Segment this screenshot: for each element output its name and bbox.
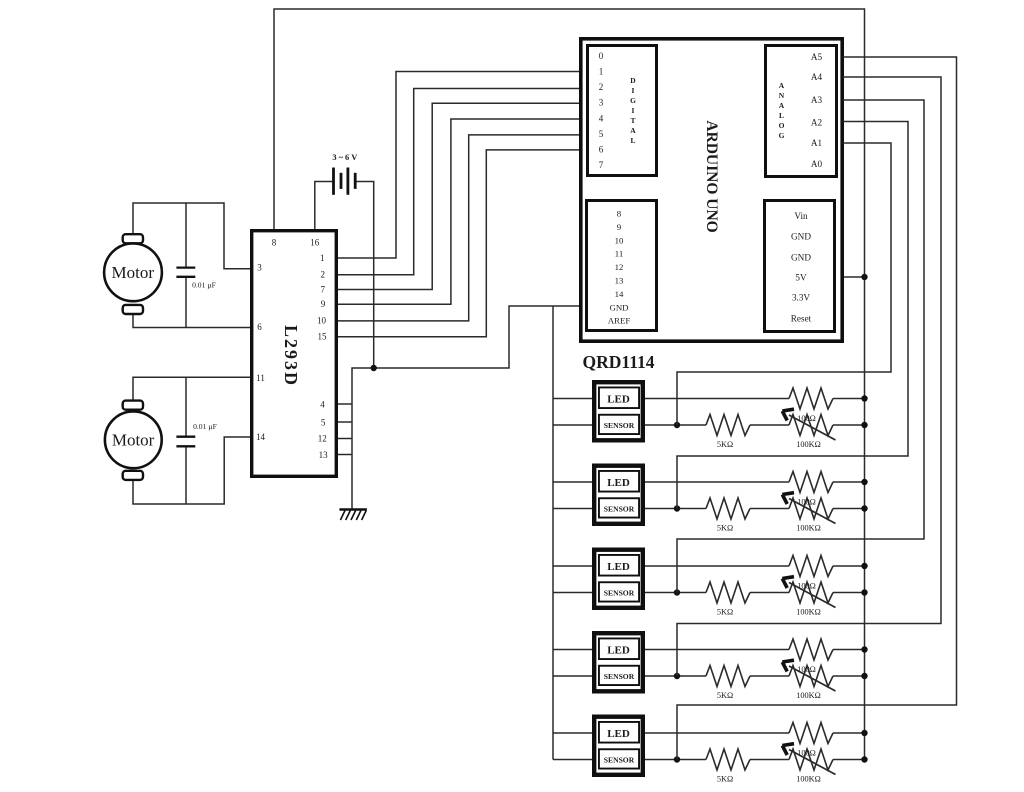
- potentiometer 100K sensor 5: [789, 749, 833, 770]
- junction sensor 1 potentiometer at 5V rail: [861, 422, 867, 428]
- wire sensor 5 phototransistor emitter to ground rail: [553, 759, 594, 761]
- wire L293D pin 4 to ground: [338, 403, 352, 405]
- svg-text:A1: A1: [811, 138, 823, 148]
- svg-text:10: 10: [615, 235, 624, 245]
- svg-text:L293D: L293D: [281, 325, 301, 387]
- svg-text:A: A: [779, 101, 785, 110]
- wire battery right terminal down to ground node: [356, 182, 374, 369]
- junction battery negative at ground bus: [371, 365, 377, 371]
- wire sensor 5 collector to node: [643, 759, 706, 761]
- motor M1: [104, 234, 162, 314]
- svg-text:Reset: Reset: [791, 314, 812, 324]
- wire motor M1 + to L293D pin 3: [133, 203, 250, 269]
- potentiometer wiper arrow sensor 1: [782, 409, 835, 440]
- Arduino analog pins box: [766, 46, 837, 177]
- wire L293D pin 12 to ground: [338, 438, 352, 440]
- svg-text:2: 2: [599, 82, 604, 92]
- junction sensor 1 LED resistor at 5V rail: [861, 395, 867, 401]
- wire capacitor C1 top lead: [185, 203, 187, 267]
- potentiometer wiper arrow sensor 3: [782, 577, 835, 608]
- svg-text:Motor: Motor: [112, 263, 155, 282]
- ground: [339, 510, 367, 521]
- svg-text:SENSOR: SENSOR: [604, 504, 635, 513]
- svg-text:LED: LED: [607, 477, 630, 489]
- wire 5V rail from L293D pin 8 across top and down right side: [274, 9, 865, 760]
- potentiometer 100K sensor 1: [789, 415, 833, 436]
- resistor 5K-ohm sensor 5: [706, 749, 750, 770]
- svg-text:14: 14: [615, 289, 624, 299]
- svg-text:8: 8: [617, 209, 622, 219]
- wire 5K to potentiometer sensor 2: [750, 508, 789, 510]
- node sensor 1 output: [674, 422, 680, 428]
- junction sensor 2 potentiometer at 5V rail: [861, 505, 867, 511]
- svg-text:LED: LED: [607, 645, 630, 657]
- potentiometer 100K sensor 2: [789, 498, 833, 519]
- Arduino power pins box: [765, 201, 835, 332]
- potentiometer wiper arrow sensor 5: [782, 744, 835, 775]
- svg-text:A5: A5: [811, 52, 823, 62]
- junction sensor 5 potentiometer at 5V rail: [861, 756, 867, 762]
- IC U1 L293D: [252, 231, 337, 477]
- svg-text:SENSOR: SENSOR: [604, 755, 635, 764]
- svg-text:I: I: [632, 86, 635, 95]
- svg-text:A: A: [779, 81, 785, 90]
- wire sensor 2 LED anode to resistor: [643, 481, 789, 483]
- svg-text:I: I: [632, 106, 635, 115]
- wire sensor 2 output to Arduino A2: [677, 122, 908, 509]
- wire L293D pin 9 to Arduino digital 4: [338, 119, 581, 304]
- svg-text:G: G: [779, 131, 785, 140]
- svg-text:A2: A2: [811, 118, 823, 128]
- svg-text:5KΩ: 5KΩ: [717, 775, 733, 784]
- potentiometer wiper arrow sensor 2: [782, 493, 835, 524]
- wire sensor 4 LED anode to resistor: [643, 649, 789, 651]
- svg-text:11: 11: [615, 249, 623, 259]
- svg-text:100KΩ: 100KΩ: [796, 691, 821, 700]
- wire potentiometer to 5V rail sensor 3: [833, 592, 865, 594]
- svg-text:ARDUINO UNO: ARDUINO UNO: [703, 120, 720, 232]
- wire sensor 5 LED cathode to ground rail: [553, 732, 594, 734]
- wire motor M1 - to L293D pin 6: [133, 314, 250, 328]
- svg-text:100KΩ: 100KΩ: [796, 608, 821, 617]
- wire 5K to potentiometer sensor 3: [750, 592, 789, 594]
- svg-text:12: 12: [615, 262, 624, 272]
- svg-text:1: 1: [599, 67, 604, 77]
- svg-text:GND: GND: [791, 231, 811, 241]
- svg-text:16: 16: [310, 238, 320, 248]
- svg-text:3: 3: [257, 263, 262, 273]
- wire ground symbol to Arduino GND pin: [352, 306, 581, 510]
- svg-text:5KΩ: 5KΩ: [717, 608, 733, 617]
- junction sensor 3 potentiometer at 5V rail: [861, 589, 867, 595]
- wire sensor 3 LED anode to resistor: [643, 565, 789, 567]
- QRD1114 sensor module 4: [594, 633, 643, 691]
- battery B1 plate short right: [354, 173, 357, 189]
- svg-text:5KΩ: 5KΩ: [717, 524, 733, 533]
- svg-text:N: N: [779, 91, 785, 100]
- wire 5K to potentiometer sensor 1: [750, 424, 789, 426]
- wire sensor 5 LED anode to resistor: [643, 732, 789, 734]
- wire 5K to potentiometer sensor 5: [750, 759, 789, 761]
- svg-text:SENSOR: SENSOR: [604, 421, 635, 430]
- svg-text:SENSOR: SENSOR: [604, 672, 635, 681]
- svg-text:12: 12: [318, 434, 327, 444]
- wire capacitor C2 bottom lead: [185, 447, 187, 504]
- node sensor 4 output: [674, 673, 680, 679]
- svg-text:100Ω: 100Ω: [797, 498, 816, 507]
- IC U2 Arduino UNO outer box: [581, 39, 842, 341]
- QRD1114 sensor module 3: [594, 550, 643, 608]
- wire motor M2 + to L293D pin 11: [133, 377, 250, 400]
- Arduino digital pins 8-14 GND AREF box: [587, 201, 657, 331]
- junction sensor 4 LED resistor at 5V rail: [861, 646, 867, 652]
- wire ground rail to sensor array: [552, 306, 554, 760]
- svg-text:A3: A3: [811, 95, 823, 105]
- svg-text:LED: LED: [607, 561, 630, 573]
- svg-text:100Ω: 100Ω: [797, 582, 816, 591]
- svg-text:L: L: [779, 111, 784, 120]
- wire sensor 1 LED cathode to ground rail: [553, 398, 594, 400]
- wire sensor 4 collector to node: [643, 675, 706, 677]
- wire potentiometer to 5V rail sensor 5: [833, 759, 865, 761]
- motor M2: [105, 401, 162, 480]
- wire sensor 3 phototransistor emitter to ground rail: [553, 592, 594, 594]
- svg-text:A4: A4: [811, 72, 823, 82]
- resistor 100-ohm sensor 3 LED: [789, 556, 833, 577]
- wire motor M2 - to L293D pin 14: [133, 437, 250, 504]
- wire sensor 1 phototransistor emitter to ground rail: [553, 424, 594, 426]
- svg-text:L: L: [630, 136, 635, 145]
- battery B1 plate long left: [332, 168, 335, 195]
- capacitor C1 0.01uF: [176, 268, 215, 290]
- junction sensor 5 LED resistor at 5V rail: [861, 730, 867, 736]
- wire sensor 5 output to Arduino A5: [677, 57, 957, 760]
- svg-text:D: D: [630, 76, 636, 85]
- wire sensor 3 LED cathode to ground rail: [553, 565, 594, 567]
- battery B1 plate long right: [346, 168, 349, 195]
- wire resistor to 5V rail sensor 4: [833, 649, 865, 651]
- wire sensor 2 collector to node: [643, 508, 706, 510]
- potentiometer 100K sensor 4: [789, 666, 833, 687]
- resistor 100-ohm sensor 1 LED: [789, 388, 833, 409]
- svg-text:100Ω: 100Ω: [797, 749, 816, 758]
- svg-text:100Ω: 100Ω: [797, 665, 816, 674]
- wire Arduino 5V pin to supply rail: [843, 276, 865, 278]
- svg-text:Vin: Vin: [794, 211, 808, 221]
- svg-text:10: 10: [317, 316, 327, 326]
- svg-text:100KΩ: 100KΩ: [796, 775, 821, 784]
- battery B1 plate short: [340, 173, 343, 189]
- QRD1114 sensor module 2: [594, 466, 643, 524]
- svg-text:13: 13: [319, 450, 329, 460]
- svg-text:6: 6: [599, 145, 604, 155]
- resistor 5K-ohm sensor 2: [706, 498, 750, 519]
- wire sensor 4 LED cathode to ground rail: [553, 649, 594, 651]
- svg-text:3 ~ 6 V: 3 ~ 6 V: [332, 153, 357, 162]
- svg-text:14: 14: [256, 432, 266, 442]
- wire L293D pin 15 to Arduino digital 6: [338, 150, 581, 337]
- svg-text:Motor: Motor: [112, 431, 155, 450]
- svg-text:9: 9: [321, 299, 326, 309]
- svg-text:GND: GND: [609, 302, 628, 312]
- svg-text:100KΩ: 100KΩ: [796, 524, 821, 533]
- svg-text:5KΩ: 5KΩ: [717, 440, 733, 449]
- wire potentiometer to 5V rail sensor 4: [833, 675, 865, 677]
- svg-text:5: 5: [599, 129, 604, 139]
- wire sensor 1 output to Arduino A1: [677, 143, 891, 425]
- svg-text:LED: LED: [607, 728, 630, 740]
- svg-text:G: G: [630, 96, 636, 105]
- wire sensor 1 LED anode to resistor: [643, 398, 789, 400]
- resistor 100-ohm sensor 5 LED: [789, 723, 833, 744]
- svg-text:4: 4: [320, 400, 325, 410]
- svg-text:SENSOR: SENSOR: [604, 588, 635, 597]
- resistor 5K-ohm sensor 3: [706, 582, 750, 603]
- svg-text:15: 15: [318, 332, 328, 342]
- node sensor 2 output: [674, 505, 680, 511]
- wire sensor 3 collector to node: [643, 592, 706, 594]
- wire L293D pin 5 to ground: [338, 421, 352, 423]
- resistor 5K-ohm sensor 4: [706, 666, 750, 687]
- potentiometer 100K sensor 3: [789, 582, 833, 603]
- svg-text:5KΩ: 5KΩ: [717, 691, 733, 700]
- wire sensor 1 collector to node: [643, 424, 706, 426]
- wire capacitor C1 bottom lead: [185, 278, 187, 328]
- svg-text:3: 3: [599, 98, 604, 108]
- capacitor C2 0.01uF: [176, 422, 216, 446]
- svg-text:9: 9: [617, 222, 622, 232]
- svg-text:13: 13: [615, 276, 624, 286]
- svg-text:1: 1: [320, 253, 325, 263]
- QRD1114 sensor module 5: [594, 717, 643, 775]
- wire L293D pin 16 to battery left terminal: [315, 182, 333, 230]
- wire 5K to potentiometer sensor 4: [750, 675, 789, 677]
- wire sensor 2 phototransistor emitter to ground rail: [553, 508, 594, 510]
- wire capacitor C2 top lead: [185, 377, 187, 436]
- potentiometer wiper arrow sensor 4: [782, 660, 835, 691]
- junction sensor 2 LED resistor at 5V rail: [861, 479, 867, 485]
- L293D pin labels: [256, 238, 328, 461]
- wire L293D pin 7 to Arduino digital 3: [338, 103, 581, 289]
- wire sensor 4 output to Arduino A4: [677, 77, 941, 676]
- node sensor 5 output: [674, 756, 680, 762]
- svg-text:7: 7: [320, 285, 325, 295]
- junction sensor 3 LED resistor at 5V rail: [861, 563, 867, 569]
- svg-text:5: 5: [321, 418, 326, 428]
- svg-text:7: 7: [599, 160, 604, 170]
- svg-text:0.01 µF: 0.01 µF: [192, 281, 216, 290]
- wire resistor to 5V rail sensor 2: [833, 481, 865, 483]
- wire potentiometer to 5V rail sensor 1: [833, 424, 865, 426]
- svg-text:A0: A0: [811, 159, 823, 169]
- wire L293D pin 13 to ground: [338, 454, 352, 456]
- wire resistor to 5V rail sensor 5: [833, 732, 865, 734]
- junction sensor 4 potentiometer at 5V rail: [861, 673, 867, 679]
- svg-text:GND: GND: [791, 252, 811, 262]
- svg-text:11: 11: [256, 373, 265, 383]
- svg-text:0: 0: [599, 51, 604, 61]
- resistor 100-ohm sensor 2 LED: [789, 472, 833, 493]
- wire potentiometer to 5V rail sensor 2: [833, 508, 865, 510]
- junction 5V stub on supply rail: [861, 274, 867, 280]
- svg-text:T: T: [630, 116, 635, 125]
- svg-text:QRD1114: QRD1114: [583, 352, 655, 372]
- QRD1114 sensor module 1: [594, 382, 643, 440]
- wire L293D pin 2 to Arduino digital 2: [338, 89, 581, 275]
- svg-text:2: 2: [320, 270, 325, 280]
- svg-text:8: 8: [272, 238, 277, 248]
- wire sensor 3 output to Arduino A3: [677, 100, 924, 593]
- svg-text:0.01 µF: 0.01 µF: [193, 422, 217, 431]
- svg-text:6: 6: [257, 322, 262, 332]
- resistor 100-ohm sensor 4 LED: [789, 639, 833, 660]
- svg-text:5V: 5V: [795, 273, 807, 283]
- Arduino digital pins 0-7 box: [588, 46, 657, 176]
- wire resistor to 5V rail sensor 1: [833, 398, 865, 400]
- wire L293D pin 1 to Arduino digital 1: [338, 72, 581, 259]
- wire resistor to 5V rail sensor 3: [833, 565, 865, 567]
- svg-text:4: 4: [599, 113, 604, 123]
- node sensor 3 output: [674, 589, 680, 595]
- wire L293D pin 10 to Arduino digital 5: [338, 135, 581, 321]
- svg-text:A: A: [630, 126, 636, 135]
- svg-text:AREF: AREF: [608, 316, 631, 326]
- wire sensor 2 LED cathode to ground rail: [553, 481, 594, 483]
- wire sensor 4 phototransistor emitter to ground rail: [553, 675, 594, 677]
- svg-text:O: O: [779, 121, 785, 130]
- svg-text:3.3V: 3.3V: [792, 293, 810, 303]
- svg-text:LED: LED: [607, 394, 630, 406]
- svg-text:100Ω: 100Ω: [797, 414, 816, 423]
- resistor 5K-ohm sensor 1: [706, 415, 750, 436]
- svg-text:100KΩ: 100KΩ: [796, 440, 821, 449]
